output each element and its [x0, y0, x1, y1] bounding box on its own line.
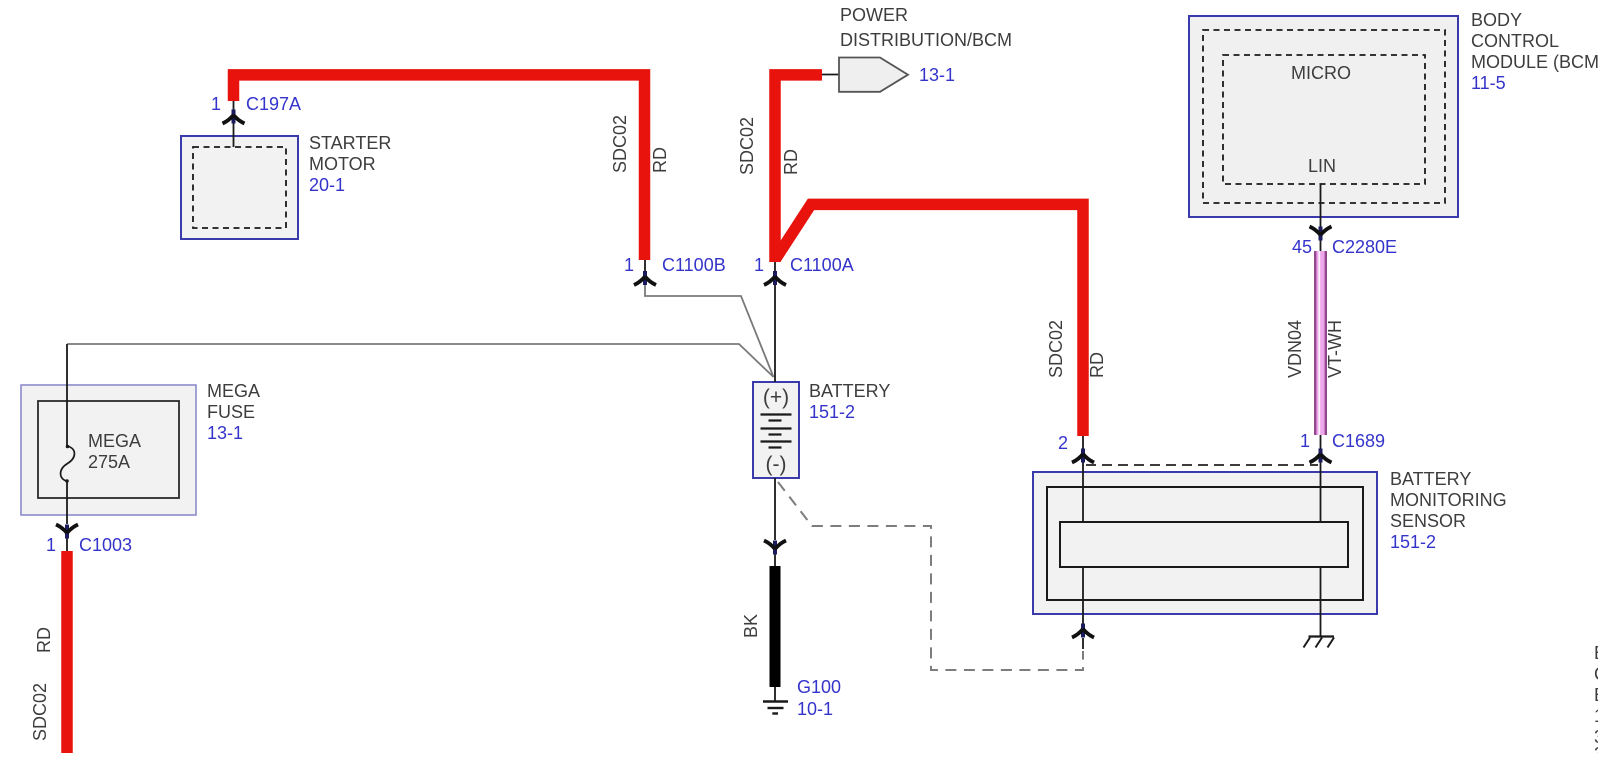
svg-text:1: 1 — [1300, 431, 1310, 451]
svg-text:C1100A: C1100A — [790, 255, 854, 275]
svg-text:BODY: BODY — [1471, 10, 1522, 30]
svg-text:MEGA: MEGA — [88, 431, 141, 451]
svg-text:STARTER: STARTER — [309, 133, 391, 153]
svg-text:C1689: C1689 — [1332, 431, 1385, 451]
svg-text:1: 1 — [1594, 706, 1598, 726]
svg-text:VDN04: VDN04 — [1285, 320, 1305, 378]
svg-text:RD: RD — [34, 627, 54, 653]
svg-text:SDC02: SDC02 — [610, 115, 630, 173]
svg-text:13-1: 13-1 — [919, 65, 955, 85]
svg-text:3: 3 — [1594, 744, 1598, 753]
svg-text:SDC02: SDC02 — [737, 117, 757, 175]
svg-text:BATTERY: BATTERY — [1390, 469, 1471, 489]
svg-text:SDC02: SDC02 — [1046, 320, 1066, 378]
svg-text:CONTROL: CONTROL — [1471, 31, 1559, 51]
svg-text:13-1: 13-1 — [207, 423, 243, 443]
svg-text:RD: RD — [781, 149, 801, 175]
svg-text:C: C — [1594, 664, 1598, 684]
svg-text:(+): (+) — [763, 386, 789, 409]
svg-text:LIN: LIN — [1308, 156, 1336, 176]
svg-text:10-1: 10-1 — [797, 699, 833, 719]
svg-text:11-5: 11-5 — [1471, 73, 1506, 93]
svg-text:C1003: C1003 — [79, 535, 132, 555]
svg-text:45: 45 — [1292, 237, 1312, 257]
svg-text:RD: RD — [650, 147, 670, 173]
svg-text:MODULE (BCM: MODULE (BCM — [1471, 52, 1598, 72]
svg-text:DISTRIBUTION/BCM: DISTRIBUTION/BCM — [840, 30, 1012, 50]
svg-text:2: 2 — [1058, 433, 1068, 453]
svg-text:C2280E: C2280E — [1332, 237, 1397, 257]
svg-text:1: 1 — [46, 535, 56, 555]
svg-text:275A: 275A — [88, 452, 130, 472]
svg-text:1: 1 — [624, 255, 634, 275]
svg-text:C197A: C197A — [246, 94, 301, 114]
svg-text:RD: RD — [1087, 352, 1107, 378]
svg-text:MEGA: MEGA — [207, 381, 260, 401]
svg-text:SENSOR: SENSOR — [1390, 511, 1466, 531]
svg-text:1: 1 — [211, 94, 221, 114]
svg-text:MICRO: MICRO — [1291, 63, 1351, 83]
svg-text:B: B — [1594, 643, 1598, 663]
svg-text:POWER: POWER — [840, 5, 908, 25]
svg-text:VT-WH: VT-WH — [1325, 320, 1345, 378]
svg-text:FUSE: FUSE — [207, 402, 255, 422]
svg-text:BK: BK — [741, 614, 761, 638]
svg-text:(-): (-) — [766, 453, 787, 476]
svg-text:20-1: 20-1 — [309, 175, 345, 195]
svg-text:BATTERY: BATTERY — [809, 381, 890, 401]
svg-text:151-2: 151-2 — [1390, 532, 1436, 552]
svg-text:MOTOR: MOTOR — [309, 154, 376, 174]
svg-text:C1100B: C1100B — [662, 255, 726, 275]
svg-text:SDC02: SDC02 — [30, 683, 50, 741]
svg-text:MONITORING: MONITORING — [1390, 490, 1507, 510]
svg-text:B: B — [1594, 685, 1598, 705]
svg-text:G100: G100 — [797, 677, 841, 697]
svg-text:1: 1 — [754, 255, 764, 275]
svg-text:151-2: 151-2 — [809, 402, 855, 422]
